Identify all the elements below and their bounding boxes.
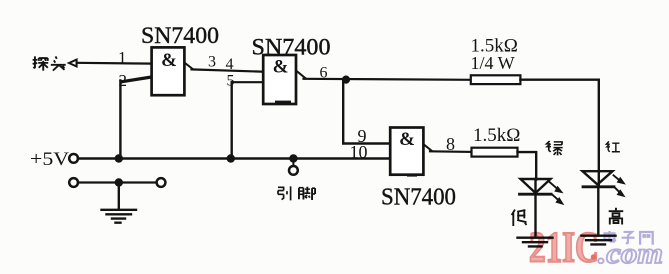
wire second row	[78, 181, 157, 183]
svg-text:SN7400: SN7400	[381, 184, 456, 210]
gate2 output wedge	[296, 71, 306, 79]
gate3 output wedge	[423, 144, 432, 151]
resistor R1	[471, 75, 521, 84]
char 子	[622, 232, 635, 244]
svg-text:6: 6	[320, 65, 328, 82]
NAND gate U1 SN7400	[152, 47, 185, 95]
+5V rail wire	[78, 157, 390, 159]
+5V label	[30, 149, 69, 170]
char 电	[605, 231, 616, 242]
ground red LED	[582, 236, 616, 245]
wire gate1 pin3 to gate2 pin4	[192, 69, 264, 71]
svg-text:1/4 W: 1/4 W	[471, 53, 515, 73]
label R1 quarter watt	[471, 53, 515, 73]
probe arrowhead	[69, 60, 77, 67]
wire junction down to gate3 pin9	[343, 80, 390, 144]
resistor R2 value 1.5k	[473, 125, 520, 146]
red LED arrows	[614, 175, 625, 196]
junction pin5 on rail	[227, 154, 235, 162]
pin number 6	[320, 65, 328, 82]
+5V terminal circle	[69, 154, 78, 163]
ground green LED	[518, 238, 553, 247]
svg-text:SN7400: SN7400	[141, 23, 219, 48]
label SN7400 gate3	[381, 184, 456, 210]
svg-text:.com: .com	[598, 237, 663, 270]
svg-text:1.5kΩ: 1.5kΩ	[473, 125, 520, 146]
ground power	[102, 210, 137, 223]
second row terminal circle right	[157, 178, 166, 187]
terminal circle 引脚	[289, 166, 298, 175]
pin number 3	[208, 54, 216, 71]
char 脚	[299, 187, 315, 200]
svg-text:8: 8	[446, 134, 455, 154]
svg-text:&: &	[161, 50, 177, 71]
label SN7400 gate2	[252, 34, 331, 59]
svg-text:21IC: 21IC	[529, 225, 599, 272]
wire gate1 pin2 stub	[121, 77, 152, 82]
wire gate2 pin5 stub	[232, 81, 264, 83]
wire gate3 pin8 to resistor R2	[430, 150, 472, 153]
svg-text:&: &	[273, 57, 289, 78]
char 引	[278, 186, 291, 200]
pin terminal stub	[292, 159, 294, 167]
label 引脚	[278, 186, 315, 200]
wire R2 to green LED	[518, 152, 537, 194]
label SN7400 gate1	[141, 23, 219, 48]
junction pin terminal on rail	[289, 154, 297, 162]
pin number 9	[358, 126, 367, 146]
wire R1 to red LED vertical	[520, 80, 598, 187]
pin number 1	[118, 48, 127, 67]
wire pin2 vertical down to +5V rail	[119, 81, 121, 159]
wire junction to ground	[118, 183, 120, 210]
pin number 4	[226, 56, 234, 73]
pin number 8	[446, 134, 455, 154]
resistor R2	[472, 148, 518, 157]
power row second terminal circle left	[69, 178, 78, 187]
wire probe to gate1 pin1	[77, 62, 152, 65]
label 绿 green	[547, 141, 563, 155]
svg-text:1: 1	[118, 48, 127, 67]
svg-text:4: 4	[226, 56, 234, 73]
green LED D1	[520, 179, 552, 194]
green LED arrows	[550, 182, 564, 204]
label 低 low	[512, 210, 527, 227]
gate1 output wedge	[184, 63, 193, 70]
label 高 high	[609, 208, 624, 225]
label 红 red	[606, 141, 620, 151]
label SN7400 value R1 1.5k	[471, 35, 518, 56]
pin number 5	[227, 73, 235, 90]
svg-text:&: &	[399, 129, 415, 150]
char 头	[51, 56, 66, 70]
wire gate2 pin6 to resistor R1	[304, 79, 471, 80]
pin number 10	[350, 142, 368, 162]
wire green LED to ground	[534, 194, 536, 237]
wire pin5 vertical down to +5V rail	[230, 82, 232, 158]
junction second row	[115, 178, 123, 186]
junction pin2 on rail	[115, 154, 123, 162]
NAND gate U2 SN7400	[263, 55, 296, 104]
svg-text:+5V: +5V	[30, 149, 69, 170]
node probe label 探头	[33, 56, 66, 70]
svg-text:3: 3	[208, 54, 216, 71]
char 探	[33, 56, 49, 70]
watermark 21IC.com logo	[529, 225, 663, 272]
red LED D2	[583, 171, 615, 187]
NAND gate U3 SN7400	[390, 128, 423, 177]
junction node output gate2	[342, 76, 350, 84]
wire red LED to ground	[597, 187, 599, 236]
pin number 2	[119, 71, 128, 90]
char 网	[640, 232, 653, 245]
